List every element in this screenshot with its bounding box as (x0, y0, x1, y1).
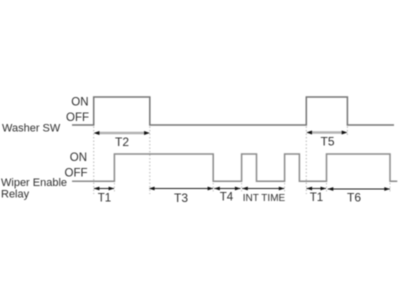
measure arrow T5 (306, 131, 347, 135)
svg-text:T6: T6 (347, 190, 361, 204)
svg-text:ON: ON (70, 152, 87, 164)
measure arrow T6 (328, 187, 391, 191)
dotted stub at washer second fall x=347.4 (346, 127, 348, 137)
svg-text:T5: T5 (320, 135, 334, 149)
measure arrow T3 (149, 187, 214, 191)
measure arrow T1 (second) (306, 187, 326, 191)
svg-text:OFF: OFF (66, 112, 89, 124)
measure arrow T1 (first) (94, 187, 115, 191)
dotted stub at relay fall x=213.2 (212, 183, 214, 192)
dotted stub at relay rise x=326.5 (326, 183, 328, 192)
dotted stub at relay fall x=390 (389, 183, 391, 192)
dotted stub at relay rise x=284.6 (284, 183, 286, 192)
dotted line at washer fall x=149.8 (149, 127, 151, 195)
svg-text:Wiper Enable: Wiper Enable (1, 177, 67, 189)
svg-text:T2: T2 (115, 135, 129, 149)
svg-text:T4: T4 (220, 192, 234, 204)
svg-text:T1: T1 (310, 192, 323, 204)
svg-text:Washer SW: Washer SW (2, 123, 61, 135)
dotted stub at relay rise x=241.6 (241, 183, 243, 192)
measure arrow INT TIME (242, 187, 285, 191)
svg-text:INT TIME: INT TIME (243, 193, 286, 204)
measure arrow T4 (214, 187, 241, 191)
waveform Wiper Enable Relay (72, 154, 397, 181)
dotted line at washer second rise x=306.3 (305, 127, 307, 195)
svg-text:OFF: OFF (65, 168, 88, 180)
svg-text:ON: ON (71, 97, 88, 109)
svg-text:T3: T3 (174, 191, 188, 205)
svg-text:Relay: Relay (1, 188, 30, 200)
dotted line at washer rise x=93.7 (93, 127, 95, 195)
waveform Washer SW (72, 97, 394, 125)
svg-text:T1: T1 (98, 192, 111, 204)
dotted stub at relay rise x=114.4 (113, 183, 115, 192)
measure arrow T2 (94, 131, 150, 135)
